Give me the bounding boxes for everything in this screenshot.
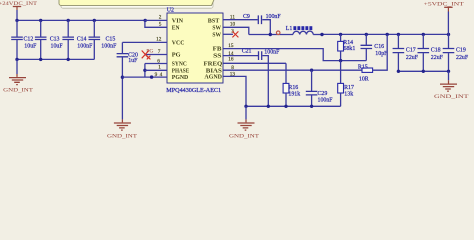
svg-text:22uF: 22uF bbox=[406, 55, 419, 61]
svg-text:VIN: VIN bbox=[172, 19, 184, 25]
wire to right ground bbox=[448, 71, 450, 80]
node rail/C19/+5V bbox=[447, 33, 450, 36]
svg-text:16: 16 bbox=[228, 57, 234, 63]
wire VIN pin bbox=[145, 19, 167, 21]
svg-text:C19: C19 bbox=[456, 48, 466, 54]
capacitor C9 bbox=[243, 14, 281, 24]
node rail/R15 bbox=[386, 33, 389, 36]
wire output cap bottom rail bbox=[398, 70, 448, 72]
wire VCC pin bbox=[122, 41, 167, 43]
svg-text:SW: SW bbox=[212, 25, 221, 31]
wire C9 to SW node bbox=[262, 20, 270, 35]
wire SYNC-PHASE-PGND vertical bbox=[144, 64, 146, 78]
wire EN drop bbox=[145, 20, 167, 27]
svg-text:PHASE: PHASE bbox=[172, 68, 189, 74]
IC U2 body MPQ4430 bbox=[167, 13, 223, 83]
svg-text:AGND: AGND bbox=[204, 75, 222, 81]
svg-text:10R: 10R bbox=[359, 77, 369, 83]
wire BIAS pin bbox=[223, 69, 362, 71]
svg-text:C21: C21 bbox=[242, 49, 252, 55]
capacitor C29 bbox=[306, 70, 333, 106]
svg-text:PGND: PGND bbox=[172, 75, 189, 81]
svg-text:13k: 13k bbox=[344, 92, 353, 98]
wire +24V vertical bbox=[16, 10, 18, 20]
power port +5VDC_INT bbox=[424, 2, 465, 12]
wire input cap bottom rail bbox=[17, 58, 94, 60]
node rail/C17 bbox=[397, 33, 400, 36]
node rail/VIN bbox=[144, 19, 147, 22]
svg-text:L1: L1 bbox=[286, 26, 293, 32]
node L1/out bbox=[320, 33, 323, 36]
svg-text:PG: PG bbox=[172, 53, 181, 59]
wire PGND pin bbox=[122, 76, 167, 78]
svg-text:C13: C13 bbox=[50, 36, 60, 42]
node bottom/C17 bbox=[397, 70, 400, 73]
node bottom/C21 bbox=[267, 105, 270, 108]
node PHASE bbox=[143, 69, 146, 72]
svg-text:68k1: 68k1 bbox=[344, 46, 356, 52]
annotation yellow note box (cut at top) bbox=[59, 0, 217, 5]
node bottom/R16 bbox=[284, 105, 287, 108]
capacitor C20 bbox=[117, 42, 138, 77]
node bottom rail/C14 bbox=[67, 58, 70, 61]
node FB/R14/R17 bbox=[339, 59, 342, 62]
wire AGND pin bbox=[223, 76, 246, 106]
wire C21 to bottom rail bbox=[262, 56, 268, 107]
ground GND_INT bottom left bbox=[107, 123, 138, 140]
svg-text:GND_INT: GND_INT bbox=[3, 88, 33, 94]
svg-text:SS: SS bbox=[213, 54, 222, 60]
resistor R16 bbox=[283, 63, 300, 106]
wire PG stub bbox=[145, 54, 167, 56]
svg-text:R17: R17 bbox=[344, 85, 354, 91]
wire PHASE pin bbox=[145, 69, 167, 71]
wire SS pin bbox=[223, 55, 258, 57]
svg-text:100nF: 100nF bbox=[264, 50, 280, 56]
wire L1 to output rail bbox=[313, 34, 322, 36]
ERC cross SW3 bbox=[232, 31, 238, 37]
resistor R15 bbox=[358, 34, 387, 82]
wire to bottom middle ground bbox=[245, 106, 247, 119]
svg-text:100nF: 100nF bbox=[101, 44, 117, 50]
wire C20 to bottom ground bbox=[121, 77, 123, 119]
svg-text:GND_INT: GND_INT bbox=[434, 94, 469, 100]
svg-text:10uF: 10uF bbox=[24, 44, 37, 50]
wire FREQ pin bbox=[223, 62, 286, 64]
svg-text:BST: BST bbox=[208, 18, 220, 24]
svg-text:C15: C15 bbox=[106, 36, 116, 42]
svg-text:191k: 191k bbox=[288, 92, 300, 98]
node bottom/AGND-GND bbox=[244, 105, 247, 108]
node BIAS/C29 bbox=[310, 69, 313, 72]
wire SW row bbox=[249, 34, 293, 36]
annotation note under-sheet bbox=[61, 0, 213, 8]
svg-text:100nF: 100nF bbox=[318, 98, 334, 104]
svg-text:GND_INT: GND_INT bbox=[107, 134, 138, 139]
node bottom/C19-GND bbox=[447, 70, 450, 73]
svg-text:FREQ: FREQ bbox=[204, 61, 223, 67]
capacitor C14 bbox=[62, 20, 93, 59]
inductor L1 bbox=[286, 26, 313, 34]
svg-text:VCC: VCC bbox=[172, 41, 185, 47]
node rail/C18 bbox=[422, 33, 425, 36]
svg-text:C9: C9 bbox=[243, 14, 250, 20]
capacitor C16 bbox=[361, 34, 389, 60]
power port +24VDC_INT bbox=[0, 1, 38, 10]
svg-text:22uF: 22uF bbox=[456, 55, 469, 61]
svg-text:C18: C18 bbox=[431, 48, 441, 54]
node rail/C12 bbox=[15, 19, 18, 22]
capacitor C21 bbox=[242, 49, 280, 61]
wire BST pin bbox=[223, 19, 258, 21]
svg-text:C12: C12 bbox=[24, 36, 34, 42]
node rail/R14 bbox=[339, 33, 342, 36]
wire input rail bbox=[17, 19, 145, 21]
svg-text:C14: C14 bbox=[77, 36, 87, 42]
svg-text:SYNC: SYNC bbox=[172, 62, 187, 68]
wire to left ground bbox=[16, 59, 18, 74]
svg-text:22uF: 22uF bbox=[431, 55, 444, 61]
ERC circle SW/L1 bbox=[276, 31, 280, 35]
wire output rail bbox=[322, 33, 449, 35]
svg-text:U2: U2 bbox=[167, 7, 174, 13]
ERC cross PG bbox=[142, 51, 149, 59]
capacitor C13 bbox=[35, 20, 63, 59]
node C9/SW bbox=[269, 33, 272, 36]
svg-text:GND_INT: GND_INT bbox=[229, 134, 260, 139]
resistor R14 bbox=[338, 34, 356, 60]
resistor R17 bbox=[338, 61, 354, 107]
wire +5V drop bbox=[447, 12, 449, 35]
node rail/C13 bbox=[39, 19, 42, 22]
capacitor C18 bbox=[418, 34, 444, 71]
node rail/C15 bbox=[93, 19, 96, 22]
wire SW pin 3 stub bbox=[223, 33, 233, 35]
node bottom/C29 bbox=[310, 105, 313, 108]
node PGND stacked pins bbox=[150, 75, 153, 78]
svg-text:R16: R16 bbox=[288, 85, 298, 91]
svg-text:10uF: 10uF bbox=[51, 44, 64, 50]
svg-text:EN: EN bbox=[172, 25, 180, 31]
capacitor C19 bbox=[443, 34, 469, 71]
svg-text:C17: C17 bbox=[406, 48, 416, 54]
node bottom rail/C13 bbox=[39, 58, 42, 61]
wire SW pin 10 bbox=[223, 27, 249, 34]
svg-text:C16: C16 bbox=[374, 44, 384, 50]
svg-text:R15: R15 bbox=[358, 64, 368, 70]
capacitor C12 bbox=[11, 20, 37, 59]
ground GND_INT right bbox=[434, 84, 469, 100]
svg-text:+5VDC_INT: +5VDC_INT bbox=[424, 2, 465, 8]
node bottom/C18 bbox=[422, 70, 425, 73]
node rail/C14 bbox=[67, 19, 70, 22]
capacitor C15 bbox=[89, 20, 118, 59]
wire bottom rail bbox=[246, 105, 341, 107]
svg-text:FB: FB bbox=[213, 47, 222, 53]
svg-text:BIAS: BIAS bbox=[206, 68, 223, 74]
svg-text:100nF: 100nF bbox=[77, 44, 93, 50]
node bottom rail/C12-GND bbox=[15, 58, 18, 61]
ground GND_INT left bbox=[3, 78, 33, 94]
svg-text:SW: SW bbox=[212, 32, 221, 38]
svg-text:10pF: 10pF bbox=[375, 51, 388, 57]
svg-text:C29: C29 bbox=[318, 91, 328, 97]
node rail/C16 bbox=[365, 33, 368, 36]
capacitor C17 bbox=[393, 34, 419, 71]
ground GND_INT bottom middle bbox=[229, 123, 260, 140]
wire SYNC pin bbox=[145, 63, 167, 65]
svg-text:1uF: 1uF bbox=[128, 58, 138, 64]
node C20/PGND bbox=[121, 76, 124, 79]
wire FB pin + jog bbox=[223, 49, 366, 61]
svg-text:MPQ4430GLE-AEC1: MPQ4430GLE-AEC1 bbox=[166, 88, 221, 94]
